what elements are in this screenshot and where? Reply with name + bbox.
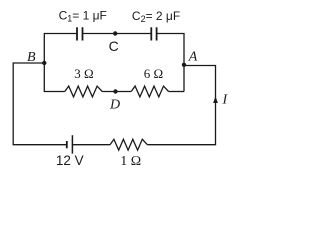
svg-text:A: A (188, 50, 198, 65)
resistor 6 ohm (131, 86, 168, 97)
wire outer left (B stub, left rail, bottom to battery) (13, 63, 67, 145)
svg-text:D: D (109, 98, 120, 113)
resistor 3 ohm (65, 86, 102, 97)
node A (182, 63, 186, 67)
capacitor C2 (151, 27, 156, 40)
wire A down to middle branch (183, 65, 185, 92)
wire battery to 1 ohm (72, 144, 110, 146)
node C (113, 31, 117, 35)
wire C1 to C2 (83, 33, 152, 35)
svg-text:1 Ω: 1 Ω (120, 154, 141, 167)
svg-text:12 V: 12 V (56, 153, 84, 167)
current arrow I (213, 96, 218, 103)
capacitor C1 (77, 27, 83, 40)
node D (113, 89, 117, 93)
svg-text:C: C (109, 38, 119, 54)
battery 12 V (67, 135, 73, 153)
wire B down to middle branch (44, 63, 65, 92)
wire top-left (B up to top rail, to C1) (44, 34, 77, 64)
wire outer right (1 ohm, bottom-right corner, right rail, stub to A) (147, 66, 215, 145)
wire 6 ohm to right rail (169, 91, 184, 93)
resistor 1 ohm (110, 139, 147, 150)
svg-text:I: I (222, 92, 229, 107)
svg-text:6 Ω: 6 Ω (144, 66, 163, 81)
wire 3 ohm to 6 ohm (102, 91, 131, 93)
svg-text:C2= 2 μF: C2= 2 μF (132, 9, 180, 24)
svg-text:3 Ω: 3 Ω (74, 66, 93, 81)
svg-text:B: B (27, 50, 36, 65)
node B (42, 61, 46, 65)
svg-text:C1= 1 μF: C1= 1 μF (59, 9, 107, 24)
wire top-right (C2 to top rail corner, down to A) (157, 34, 184, 66)
